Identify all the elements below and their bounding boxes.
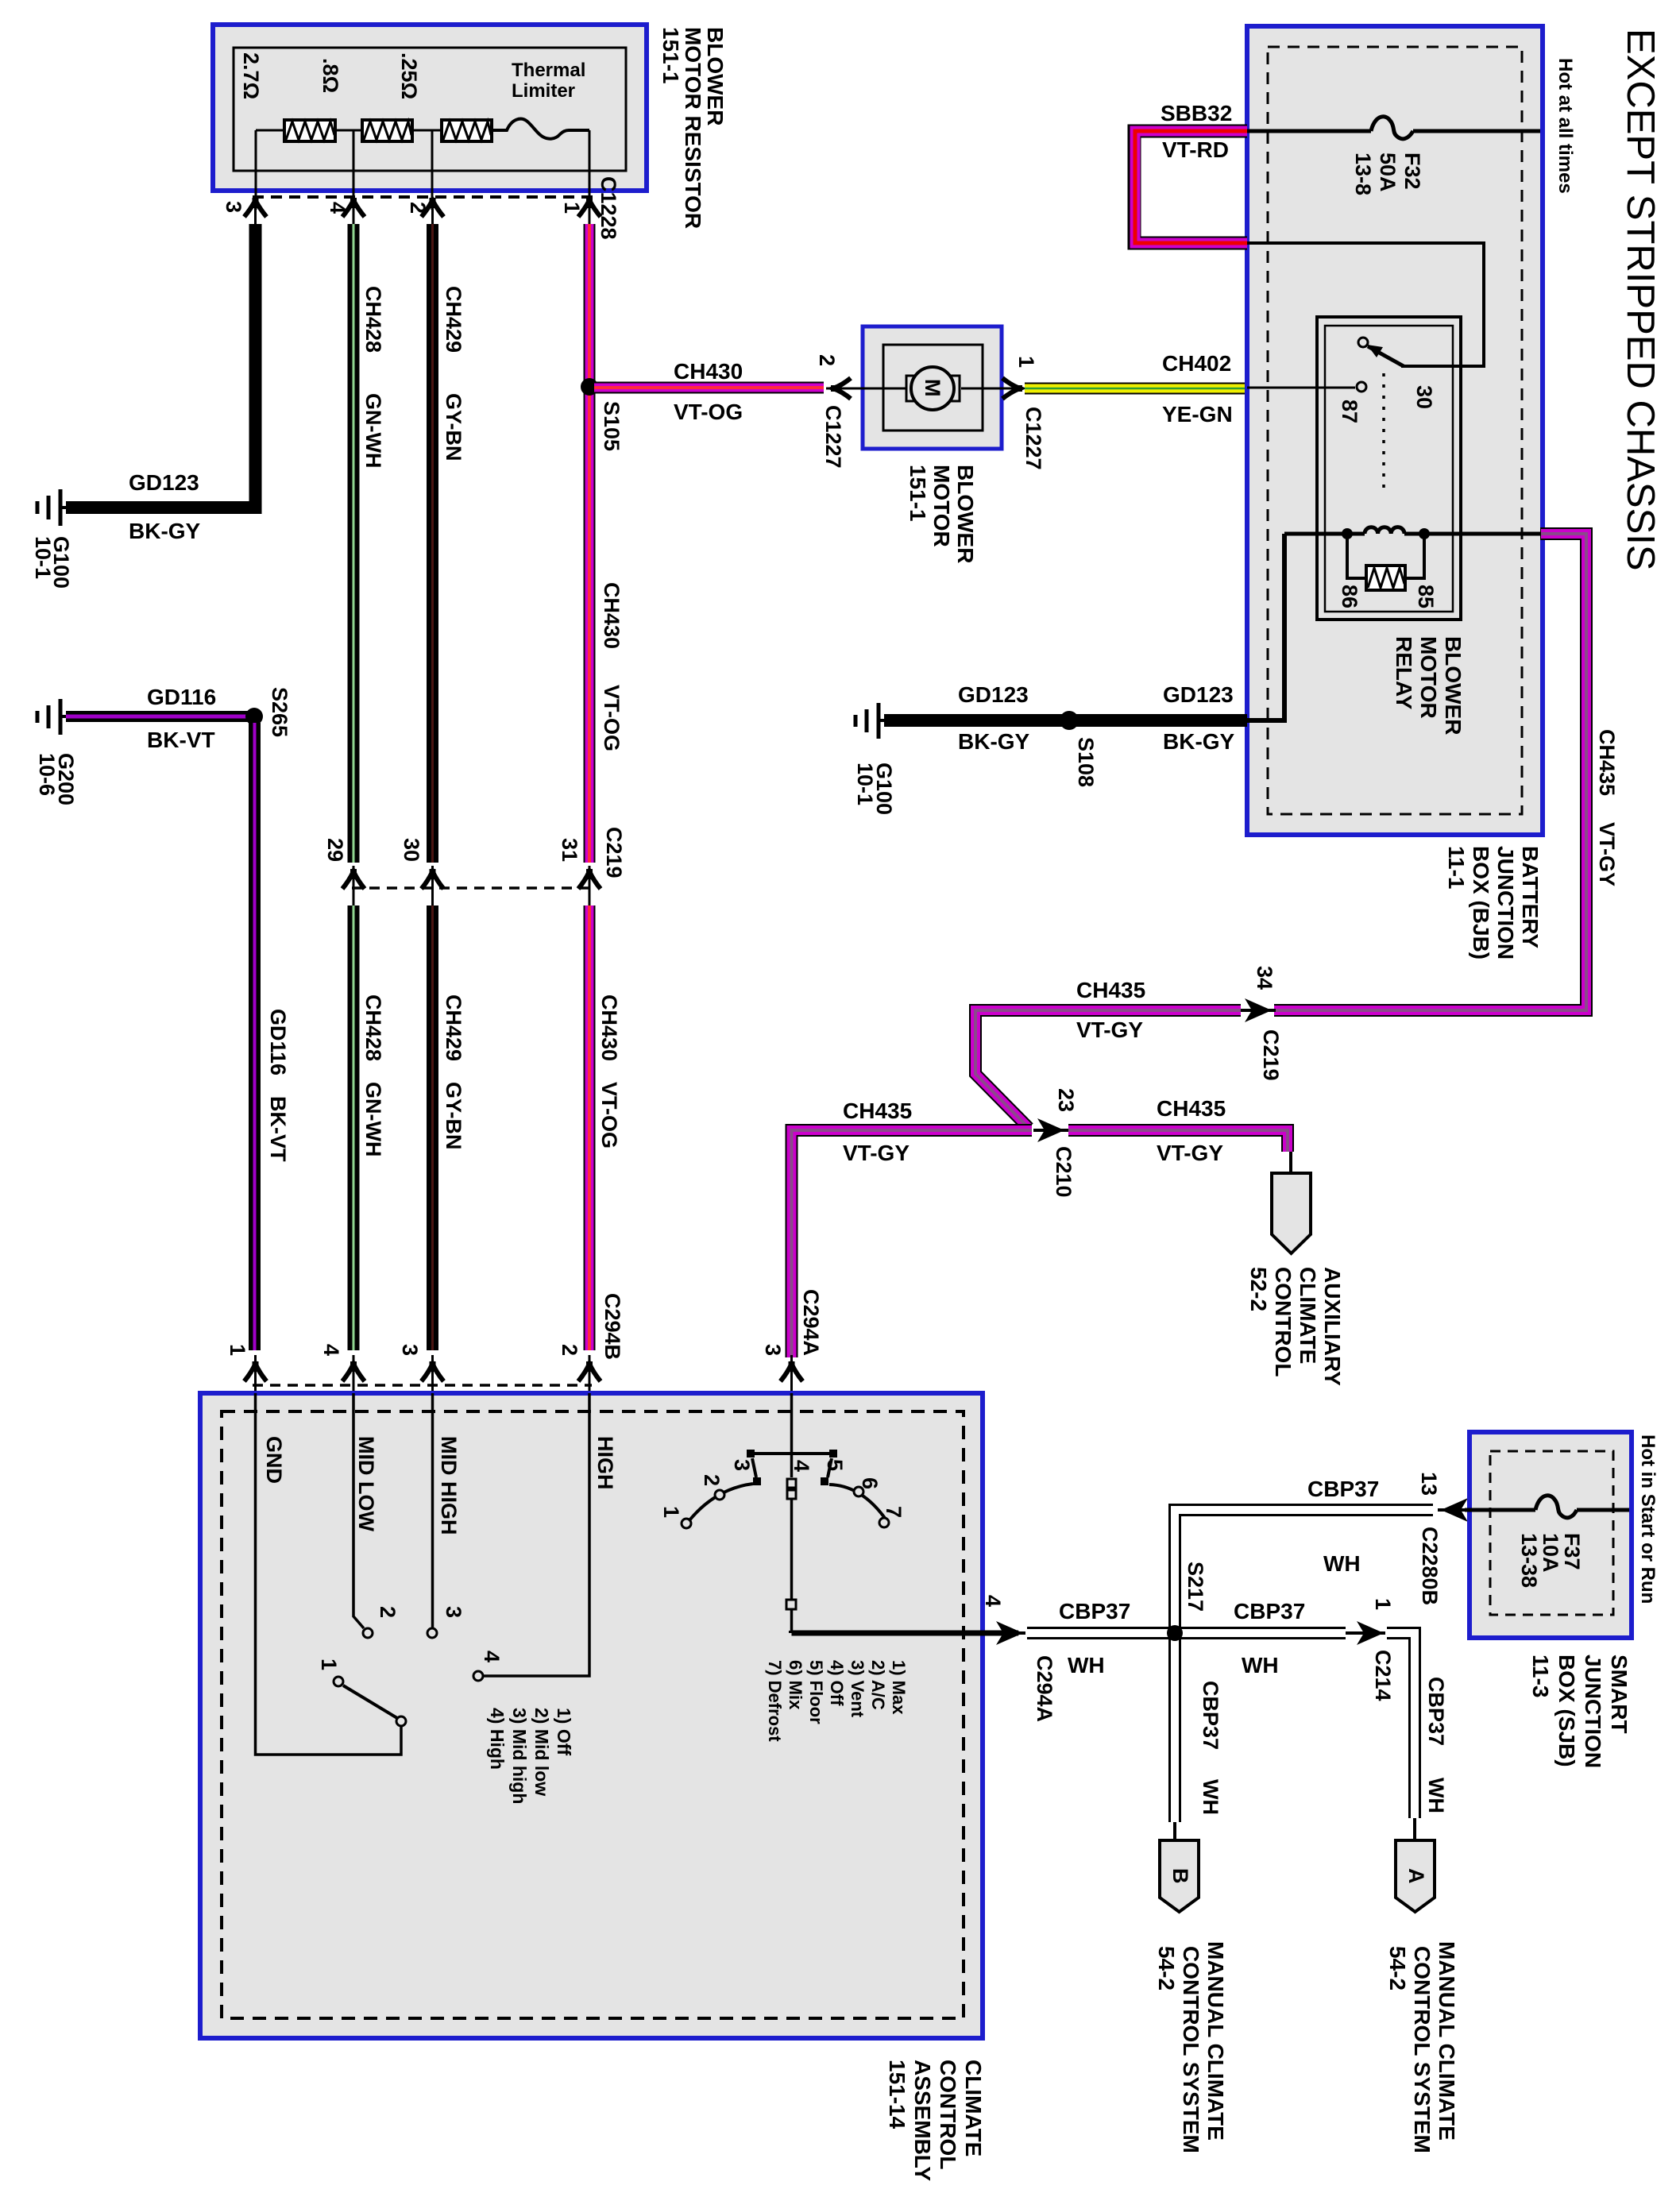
pin label 85 (1414, 585, 1438, 608)
svg-text:BLOWER: BLOWER (953, 465, 978, 563)
mode switch numbers (659, 1459, 906, 1518)
svg-text:GD116: GD116 (266, 1009, 290, 1075)
svg-text:CH435: CH435 (1157, 1096, 1226, 1121)
svg-text:13-8: 13-8 (1351, 153, 1375, 195)
svg-text:.8Ω: .8Ω (319, 58, 342, 93)
svg-text:CLIMATE: CLIMATE (1296, 1267, 1320, 1364)
svg-text:A: A (1404, 1868, 1428, 1884)
svg-text:SMART: SMART (1607, 1655, 1632, 1734)
svg-text:GN-WH: GN-WH (361, 393, 385, 468)
svg-text:BK-VT: BK-VT (147, 728, 215, 752)
svg-text:2: 2 (700, 1474, 724, 1486)
svg-text:87: 87 (1338, 400, 1361, 423)
label CH428 upper (361, 286, 385, 353)
box BLOWER MOTOR RESISTOR 151-1 (213, 25, 647, 191)
mode switch right arc contacts 5-6-7 (821, 1458, 889, 1527)
connector arrow C1228 pin3 (245, 198, 267, 224)
svg-text:WH: WH (1068, 1653, 1105, 1678)
label WH A branch (1424, 1778, 1448, 1813)
svg-text:CH435: CH435 (1076, 978, 1145, 1002)
connector pentagon B (1160, 1840, 1199, 1912)
relay box BLOWER MOTOR RELAY (1317, 317, 1461, 620)
wire relay 86 to GD123 (1247, 534, 1284, 720)
svg-text:GD116: GD116 (147, 685, 216, 709)
wire CBP37 WH C294A to S217 (1027, 1627, 1175, 1639)
junction dot 86 (1342, 528, 1353, 539)
label BATTERY JUNCTION BOX (BJB) 11-1 (1444, 846, 1543, 959)
pin label 3 (398, 1344, 422, 1356)
svg-text:CONTROL: CONTROL (936, 2060, 960, 2169)
svg-text:1: 1 (560, 202, 584, 214)
wire CBP37 WH S217 down to pentagon B (1168, 1633, 1181, 1840)
wire CH402 YE-GN (1025, 383, 1247, 395)
connector pentagon A (1396, 1840, 1435, 1912)
wire GD123 BK-GY right segment (884, 714, 1247, 727)
svg-text:CH435: CH435 (1595, 729, 1619, 796)
connector arrow C294A pin3 (781, 1355, 803, 1393)
pin label 3 (222, 201, 245, 213)
pin label 1 (560, 202, 584, 214)
svg-text:F37: F37 (1560, 1533, 1584, 1570)
svg-text:3) Vent: 3) Vent (848, 1660, 867, 1718)
svg-text:13-38: 13-38 (1517, 1533, 1541, 1588)
svg-text:C1228: C1228 (597, 176, 620, 240)
svg-text:GN-WH: GN-WH (361, 1082, 385, 1156)
box BLOWER MOTOR 151-1 (863, 326, 1002, 449)
label HIGH (593, 1436, 617, 1490)
pin label 30 (400, 838, 423, 862)
wire GND internal (256, 1393, 402, 1755)
label Thermal Limiter (512, 60, 585, 102)
label S217 (1184, 1562, 1207, 1612)
svg-text:2: 2 (558, 1344, 581, 1356)
svg-text:C219: C219 (1259, 1029, 1283, 1081)
pin label 2 (815, 354, 839, 366)
svg-text:54-2: 54-2 (1154, 1946, 1179, 1990)
svg-text:1) Off: 1) Off (554, 1708, 574, 1755)
label C294A top (799, 1289, 823, 1356)
svg-text:MOTOR: MOTOR (929, 465, 954, 547)
box BATTERY JUNCTION BOX (BJB) 11-1 (1247, 26, 1543, 835)
connector arrow C294B pin3 (422, 1355, 444, 1393)
svg-text:WH: WH (1424, 1778, 1448, 1813)
svg-text:MID LOW: MID LOW (354, 1436, 378, 1531)
pin label 30 (1412, 385, 1436, 409)
svg-text:RELAY: RELAY (1392, 636, 1416, 710)
box CLIMATE CONTROL ASSEMBLY 151-14 (200, 1393, 983, 2038)
svg-text:C1227: C1227 (821, 405, 845, 469)
wire GD123 BK-GY pin3 to ground G100 (66, 224, 256, 508)
junction S105 (581, 378, 598, 396)
motor brushes (906, 376, 960, 401)
wire fuse F37 feed line (1465, 1508, 1629, 1512)
connector arrow C1228 pin1 (578, 198, 601, 224)
ground G200 symbol (37, 699, 66, 735)
wire CH428 GN-WH vertical upper (348, 224, 360, 863)
wire resistor chain (256, 130, 589, 210)
label Hot at all times (1554, 58, 1576, 194)
svg-text:4: 4 (790, 1460, 813, 1472)
pin label 23 (1054, 1088, 1078, 1112)
svg-text:34: 34 (1253, 966, 1276, 990)
label AUXILIARY CLIMATE CONTROL 52-2 (1246, 1267, 1345, 1386)
svg-text:MID HIGH: MID HIGH (437, 1436, 461, 1535)
junction S217 (1167, 1625, 1183, 1641)
pin label 4 contact (480, 1651, 504, 1662)
label GND (262, 1436, 286, 1484)
label C2280B (1418, 1527, 1442, 1605)
svg-text:VT-OG: VT-OG (597, 1082, 621, 1149)
svg-text:BK-GY: BK-GY (958, 729, 1030, 754)
svg-text:VT-OG: VT-OG (674, 400, 743, 424)
connector arrow C1227 pin1 (1002, 378, 1022, 399)
wire through motor (826, 388, 1015, 390)
box SMART JUNCTION BOX (SJB) 11-3 (1470, 1432, 1632, 1638)
wire CH429 GY-BN vertical lower (427, 905, 438, 1350)
svg-text:MANUAL CLIMATE: MANUAL CLIMATE (1435, 1941, 1459, 2141)
svg-text:Limiter: Limiter (512, 80, 575, 102)
label C1227 left (821, 405, 845, 469)
pin label 34 (1253, 966, 1276, 990)
svg-text:4: 4 (981, 1595, 1005, 1607)
label SMART JUNCTION BOX (SJB) 11-3 (1528, 1655, 1632, 1768)
svg-text:VT-RD: VT-RD (1162, 137, 1229, 162)
svg-text:CLIMATE: CLIMATE (961, 2060, 986, 2156)
wire CBP37 WH C214 to pentagon A (1387, 1633, 1415, 1842)
svg-text:CBP37: CBP37 (1234, 1599, 1305, 1624)
svg-text:GY-BN: GY-BN (442, 1082, 465, 1150)
svg-text:10A: 10A (1539, 1533, 1562, 1573)
svg-text:1: 1 (226, 1344, 249, 1356)
connector C294B dashed line (253, 1384, 592, 1387)
label S265 (268, 687, 292, 737)
svg-text:1: 1 (1014, 356, 1038, 368)
svg-text:CH429: CH429 (442, 286, 465, 353)
label F32 50A 13-8 (1351, 153, 1424, 195)
connector arrow C219 pin34 (1239, 998, 1276, 1022)
svg-text:CBP37: CBP37 (1059, 1599, 1130, 1624)
svg-text:2) A/C: 2) A/C (868, 1660, 888, 1710)
svg-text:C294B: C294B (601, 1293, 624, 1360)
label .25ohm (397, 52, 421, 99)
label C210 (1052, 1146, 1076, 1198)
relay actuator dotted line (1382, 373, 1385, 494)
pin label 3 contact (442, 1606, 465, 1618)
mode switch top bar (747, 1450, 837, 1458)
svg-text:Hot at all times: Hot at all times (1554, 58, 1576, 194)
label MID HIGH (437, 1436, 461, 1535)
label S105 (600, 401, 624, 451)
pin label 2 contact (376, 1606, 400, 1618)
svg-text:BOX (BJB): BOX (BJB) (1469, 846, 1493, 959)
svg-text:3) Mid high: 3) Mid high (509, 1708, 530, 1804)
label VT-GY right side (1595, 822, 1619, 886)
label Hot in Start or Run (1637, 1434, 1659, 1604)
wire HIGH internal (473, 1393, 589, 1681)
label CH429 upper (442, 286, 465, 353)
mode switch wiper element (787, 1479, 796, 1499)
svg-text:B: B (1168, 1868, 1192, 1884)
svg-text:7) Defrost: 7) Defrost (765, 1660, 785, 1742)
pin label 29 (323, 838, 347, 862)
label BLOWER MOTOR RELAY (1392, 636, 1466, 735)
wire MID LOW internal (353, 1393, 373, 1638)
fuse F32 element (1371, 117, 1413, 139)
svg-text:VT-GY: VT-GY (843, 1141, 910, 1165)
svg-text:CONTROL SYSTEM: CONTROL SYSTEM (1179, 1946, 1203, 2153)
label MANUAL CLIMATE CONTROL SYSTEM 54-2 (B) (1154, 1941, 1228, 2153)
label CH429 lower (442, 994, 465, 1061)
svg-text:C1227: C1227 (1022, 407, 1045, 470)
svg-text:MOTOR: MOTOR (1416, 636, 1441, 719)
connector arrow C1228 pin4 (342, 198, 365, 224)
svg-text:F32: F32 (1400, 153, 1424, 190)
svg-text:ASSEMBLY: ASSEMBLY (910, 2060, 935, 2181)
connector C1228 dashed line (253, 195, 594, 199)
pin label 1 (226, 1344, 249, 1356)
mode list labels (765, 1660, 909, 1742)
connector arrow C214 pin1 (1346, 1621, 1385, 1645)
label WH B branch (1199, 1779, 1222, 1815)
svg-text:5) Floor: 5) Floor (806, 1660, 826, 1724)
label CH435 right side (1595, 729, 1619, 796)
label CH428 lower (361, 994, 385, 1061)
label GY-BN upper (442, 393, 465, 461)
svg-text:BK-GY: BK-GY (1163, 729, 1235, 754)
svg-text:C294A: C294A (1033, 1655, 1056, 1722)
svg-text:30: 30 (400, 838, 423, 862)
connector pentagon AUXILIARY CLIMATE CONTROL (1272, 1173, 1311, 1253)
svg-text:CH428: CH428 (361, 286, 385, 353)
wire CH429 GY-BN vertical upper (427, 224, 438, 863)
wire CH430 VT-OG vertical upper (584, 224, 596, 863)
svg-text:CH430: CH430 (597, 994, 621, 1061)
pin label 4 (319, 1344, 343, 1356)
svg-text:AUXILIARY: AUXILIARY (1320, 1267, 1345, 1386)
wire SBB32 to relay pin30 (1247, 243, 1484, 366)
svg-text:GD123: GD123 (129, 470, 199, 495)
svg-text:S217: S217 (1184, 1562, 1207, 1612)
svg-text:CONTROL: CONTROL (1271, 1267, 1296, 1377)
label BLOWER MOTOR 151-1 (906, 465, 978, 563)
svg-text:7: 7 (882, 1506, 906, 1518)
fan list labels (487, 1708, 574, 1804)
svg-text:52-2: 52-2 (1246, 1267, 1271, 1311)
connector arrow C294B pin1 (245, 1355, 267, 1393)
svg-text:13: 13 (1417, 1472, 1441, 1496)
connector arrow C294A pin4 (993, 1621, 1025, 1645)
pin label 86 (1338, 585, 1361, 608)
wire MID HIGH internal (427, 1393, 437, 1638)
wire CH435 VT-GY right of C210 to aux (1068, 1130, 1288, 1152)
svg-text:3: 3 (442, 1606, 465, 1618)
wire wiper output thick to C294A pin4 (792, 1631, 1019, 1633)
wire CH435 VT-GY from BJB down right side (1274, 534, 1586, 1010)
svg-text:BK-VT: BK-VT (266, 1096, 290, 1162)
connector arrow C2280B pin13 (1438, 1498, 1471, 1522)
svg-text:GND: GND (262, 1436, 286, 1484)
label CLIMATE CONTROL ASSEMBLY 151-14 (885, 2060, 986, 2181)
svg-text:CONTROL SYSTEM: CONTROL SYSTEM (1410, 1946, 1435, 2153)
svg-text:5: 5 (823, 1459, 847, 1471)
svg-text:CBP37: CBP37 (1424, 1677, 1448, 1746)
wiper to output line (786, 1499, 796, 1632)
svg-text:SBB32: SBB32 (1161, 101, 1232, 125)
label C294B (601, 1293, 624, 1360)
label CH430 upper (600, 582, 624, 649)
svg-text:C2280B: C2280B (1418, 1527, 1442, 1605)
wire CH430 VT-OG horizontal to blower motor (594, 382, 824, 394)
label CBP37 B branch (1199, 1681, 1222, 1750)
relay pin87 contact (1247, 382, 1366, 392)
svg-text:GD123: GD123 (1163, 682, 1234, 707)
svg-text:CH435: CH435 (843, 1098, 912, 1123)
label S108 (1074, 737, 1098, 787)
svg-text:30: 30 (1412, 385, 1436, 409)
svg-text:3: 3 (398, 1344, 422, 1356)
relay coil line 86-85 (1284, 532, 1540, 536)
svg-text:GY-BN: GY-BN (442, 393, 465, 461)
svg-text:85: 85 (1414, 585, 1438, 608)
fuse F37 element (1535, 1496, 1577, 1518)
svg-text:2) Mid low: 2) Mid low (531, 1708, 552, 1796)
pin label 4 (981, 1595, 1005, 1607)
svg-text:BK-GY: BK-GY (129, 519, 201, 543)
svg-text:CH429: CH429 (442, 994, 465, 1061)
label C294A bottom (1033, 1655, 1056, 1722)
svg-text:50A: 50A (1376, 153, 1400, 192)
svg-text:10-6: 10-6 (35, 753, 59, 796)
svg-text:M: M (921, 379, 944, 397)
svg-text:CBP37: CBP37 (1307, 1477, 1379, 1501)
ground G100 mid (855, 703, 884, 739)
svg-text:3: 3 (761, 1344, 785, 1356)
pin label 3 (761, 1344, 785, 1356)
wire CH435 VT-GY left vertical to C294A (792, 1130, 1033, 1357)
svg-text:.25Ω: .25Ω (397, 52, 421, 99)
connector arrow C294B pin4 (342, 1355, 365, 1393)
wire CH435 VT-GY upper left with diagonal (975, 1010, 1241, 1128)
connector arrow C1228 pin2 (422, 198, 444, 224)
switch blade fan (334, 1677, 406, 1726)
svg-text:4: 4 (319, 1344, 343, 1356)
svg-text:JUNCTION: JUNCTION (1581, 1655, 1605, 1768)
svg-text:29: 29 (323, 838, 347, 862)
svg-text:CH430: CH430 (674, 359, 743, 384)
connector arrow C1227 pin2 (831, 378, 851, 399)
svg-text:151-14: 151-14 (885, 2060, 910, 2129)
svg-text:VT-OG: VT-OG (600, 685, 624, 751)
svg-text:2: 2 (406, 202, 430, 214)
connector arrow C210 pin23 (1033, 1118, 1068, 1142)
wire fuse F32 feed line (1247, 129, 1540, 133)
svg-text:WH: WH (1199, 1779, 1222, 1815)
svg-text:Hot in Start or Run: Hot in Start or Run (1637, 1434, 1659, 1604)
svg-text:6) Mix: 6) Mix (786, 1660, 805, 1710)
label C219 at pin34 (1259, 1029, 1283, 1081)
svg-text:86: 86 (1338, 585, 1361, 608)
junction dot 85 (1419, 528, 1430, 539)
title EXCEPT STRIPPED CHASSIS (1619, 29, 1662, 571)
label MID LOW (354, 1436, 378, 1531)
pin label 1 (1371, 1598, 1395, 1610)
label C1228 (597, 176, 620, 240)
wire CH428 GN-WH vertical lower (348, 905, 360, 1350)
svg-text:BLOWER: BLOWER (1441, 636, 1466, 735)
resistor .25ohm (442, 120, 492, 141)
svg-text:HIGH: HIGH (593, 1436, 617, 1490)
svg-text:6: 6 (858, 1477, 882, 1489)
wire stub to aux pentagon (1289, 1152, 1292, 1173)
svg-text:151-1: 151-1 (906, 465, 930, 522)
label CH430 lower (597, 994, 621, 1061)
label VT-OG upper (600, 685, 624, 751)
svg-text:CH430: CH430 (600, 582, 624, 649)
svg-text:4: 4 (326, 202, 350, 214)
label BK-VT lower (266, 1096, 290, 1162)
label 2.7ohm (239, 52, 263, 99)
relay coil (1365, 527, 1404, 534)
pin label 31 (558, 838, 581, 862)
connector arrow C219 pin29 (342, 866, 365, 905)
label BLOWER MOTOR RESISTOR 151-1 (658, 27, 728, 229)
svg-text:1: 1 (317, 1658, 341, 1670)
svg-text:4: 4 (480, 1651, 504, 1662)
svg-text:2: 2 (376, 1606, 400, 1618)
svg-text:3: 3 (730, 1459, 754, 1471)
svg-text:1: 1 (1371, 1598, 1395, 1610)
svg-text:C294A: C294A (799, 1289, 823, 1356)
resistor 2.7ohm (284, 120, 335, 141)
wire CH430 VT-OG vertical lower (584, 905, 596, 1350)
svg-text:VT-GY: VT-GY (1076, 1017, 1143, 1042)
svg-text:JUNCTION: JUNCTION (1493, 846, 1518, 959)
svg-text:2: 2 (815, 354, 839, 366)
svg-text:S108: S108 (1074, 737, 1098, 787)
label C219 right of CH430 (602, 827, 626, 878)
label G100 10-1 mid (853, 763, 896, 815)
connector arrow C219 pin31 (578, 866, 601, 905)
svg-text:11-3: 11-3 (1528, 1655, 1553, 1698)
svg-text:1: 1 (659, 1506, 683, 1518)
svg-text:2.7Ω: 2.7Ω (239, 52, 263, 99)
pin label 4 (326, 202, 350, 214)
svg-text:VT-GY: VT-GY (1157, 1141, 1223, 1165)
label GN-WH upper (361, 393, 385, 468)
svg-text:1) Max: 1) Max (889, 1660, 909, 1715)
svg-text:CBP37: CBP37 (1199, 1681, 1222, 1750)
svg-text:BOX (SJB): BOX (SJB) (1554, 1655, 1579, 1767)
svg-text:S105: S105 (600, 401, 624, 451)
wire CBP37 WH S217 to C214 (1175, 1627, 1346, 1639)
svg-text:GD123: GD123 (958, 682, 1029, 707)
svg-text:YE-GN: YE-GN (1162, 402, 1233, 427)
label GD116 lower (266, 1009, 290, 1075)
connector arrow C219 pin30 (422, 866, 444, 905)
svg-text:4) High: 4) High (487, 1708, 508, 1770)
label GY-BN lower (442, 1082, 465, 1150)
label VT-OG lower (597, 1082, 621, 1149)
resistor .8ohm (362, 120, 412, 141)
label F37 10A 13-38 (1517, 1533, 1584, 1588)
svg-text:11-1: 11-1 (1444, 846, 1469, 890)
svg-text:10-1: 10-1 (853, 763, 877, 805)
junction S265 (245, 708, 263, 725)
svg-text:MANUAL CLIMATE: MANUAL CLIMATE (1203, 1941, 1228, 2141)
svg-text:23: 23 (1054, 1088, 1078, 1112)
relay parallel resistor (1347, 534, 1424, 590)
svg-text:10-1: 10-1 (31, 536, 55, 579)
